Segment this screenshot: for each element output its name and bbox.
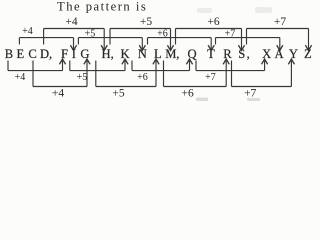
scan smudge below +6 outer: [196, 98, 208, 102]
bracket B to F +4 (bottom inner chain): [8, 59, 66, 83]
bracket F to K +5 (bottom inner chain): [70, 59, 128, 83]
bracket C to G +4 (bottom outer chain): [33, 59, 90, 99]
bracket R to Y +7 (bottom outer chain): [232, 59, 295, 99]
svg-text:+4: +4: [52, 88, 64, 100]
svg-text:+7: +7: [274, 16, 286, 28]
svg-text:,: ,: [176, 47, 179, 61]
svg-text:+4: +4: [15, 72, 26, 83]
svg-text:+6: +6: [181, 88, 193, 100]
svg-text:G: G: [80, 47, 89, 61]
svg-text:+5: +5: [140, 16, 152, 28]
svg-text:L: L: [154, 47, 162, 61]
svg-text:+5: +5: [77, 72, 88, 83]
bracket G to L +5 (bottom outer chain): [96, 59, 159, 99]
svg-text:+4: +4: [22, 26, 33, 37]
svg-text:Y: Y: [289, 47, 298, 61]
svg-text:+5: +5: [85, 28, 96, 39]
svg-text:+4: +4: [65, 16, 77, 28]
svg-text:+6: +6: [207, 16, 219, 28]
svg-text:,: ,: [111, 47, 114, 61]
svg-text:Q: Q: [187, 47, 196, 61]
bracket H to M +5 (top outer chain): [110, 16, 174, 50]
svg-text:+7: +7: [205, 72, 216, 83]
bracket N to T +6 (top inner chain): [148, 28, 215, 50]
svg-text:,: ,: [247, 47, 250, 61]
svg-text:+5: +5: [112, 88, 124, 100]
svg-text:+6: +6: [137, 72, 148, 83]
bracket E to I +4 (top inner chain): [19, 26, 76, 51]
svg-text:,: ,: [49, 47, 52, 61]
svg-text:C: C: [28, 47, 36, 61]
svg-text:E: E: [16, 47, 24, 61]
bracket S to Z +7 (top outer chain): [247, 16, 312, 50]
bracket D to H +4 (top outer chain): [44, 16, 108, 50]
svg-text:R: R: [223, 47, 232, 61]
bracket T to A +7 (top inner chain): [216, 28, 283, 50]
scan smudge below +7 outer: [247, 98, 260, 101]
svg-text:+6: +6: [157, 28, 168, 39]
svg-text:X: X: [262, 47, 271, 61]
scan smudge top right 1: [197, 8, 212, 13]
svg-text:+7: +7: [225, 28, 236, 39]
bracket K to Q +6 (bottom inner chain): [132, 59, 193, 83]
bracket Q to X +7 (bottom inner chain): [196, 59, 268, 83]
svg-text:D: D: [40, 47, 49, 61]
svg-text:The pattern is: The pattern is: [57, 0, 147, 14]
svg-text:+7: +7: [244, 88, 256, 100]
bracket I to N +5 (top inner chain): [78, 28, 145, 50]
scan smudge top right 2: [255, 7, 272, 13]
bracket L to R +6 (bottom outer chain): [164, 59, 230, 99]
bracket M to S +6 (top outer chain): [176, 16, 245, 50]
svg-text:B: B: [5, 47, 13, 61]
